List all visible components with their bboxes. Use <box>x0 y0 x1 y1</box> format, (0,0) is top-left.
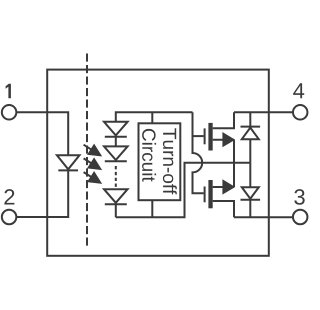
wire box top stub <box>151 112 153 123</box>
dotted continuation of photodiode stack <box>115 166 117 187</box>
MOSFET Q2 gate electrode <box>204 187 206 203</box>
LED D1 <box>57 155 80 170</box>
wire photodiode bottom rail to source node <box>116 163 251 218</box>
MOSFET Q1 source arrow <box>222 132 235 147</box>
pin 1 terminal <box>2 105 17 120</box>
MOSFET Q1 gate electrode <box>204 128 206 144</box>
isolation dashed line <box>86 54 88 246</box>
MOSFET Q1 drain wire <box>213 112 234 128</box>
light emission arrows <box>84 145 101 183</box>
body diode D2 (top) <box>241 112 261 162</box>
pin 1 label <box>6 84 11 99</box>
photodiode PD1 <box>104 122 128 137</box>
wire pin 1 to LED anode <box>16 112 68 155</box>
wire gate branch Q1 <box>193 135 204 137</box>
MOSFET Q1 channel bar <box>208 123 212 151</box>
pin 2 terminal <box>2 210 17 225</box>
photodiode PD3 <box>104 189 128 204</box>
wire box bottom stub <box>151 200 153 217</box>
MOSFET Q2 source arrow <box>222 179 235 194</box>
body diode D3 (bottom) <box>241 163 261 218</box>
pin 2 label <box>4 189 14 204</box>
pin 3 terminal <box>293 210 308 225</box>
package outline <box>47 70 269 256</box>
pin 4 label <box>293 83 304 98</box>
wire PD3 to bottom rail <box>115 204 117 217</box>
MOSFET Q2 channel bar <box>208 180 212 208</box>
MOSFET Q2 drain wire <box>213 201 234 217</box>
top drain rail to pin 4 <box>234 111 293 113</box>
MOSFET Q1 source wire <box>213 139 234 141</box>
pin 3 label <box>294 189 304 205</box>
pin 4 terminal <box>293 105 308 120</box>
photodiode PD2 <box>104 146 128 161</box>
turn-off circuit label line 2 <box>142 129 156 182</box>
turn-off circuit block <box>139 123 181 200</box>
gate rail with hop over source line <box>193 112 204 193</box>
MOSFET Q2 source wire <box>213 186 234 188</box>
wire PD1 to PD2 <box>115 137 117 147</box>
bottom drain rail to pin 3 <box>234 216 293 218</box>
turn-off circuit label line 1 <box>163 128 177 194</box>
wire photodiode top rail <box>116 112 193 122</box>
wire pin 2 to LED cathode <box>16 170 68 217</box>
common source vertical wire <box>233 140 235 187</box>
